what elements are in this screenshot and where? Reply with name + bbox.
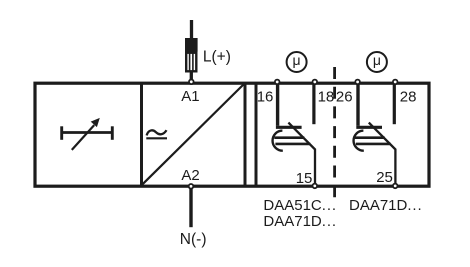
svg-text:26: 26 — [336, 89, 353, 106]
divider supply cell right edge — [244, 83, 247, 187]
svg-text:A1: A1 — [181, 88, 199, 105]
svg-text:18: 18 — [318, 89, 335, 106]
terminal 28 — [393, 80, 398, 85]
main device box — [35, 83, 429, 186]
svg-text:L(+): L(+) — [203, 48, 231, 65]
contact K2 moving arm — [369, 123, 396, 184]
svg-text:N(-): N(-) — [180, 231, 207, 248]
terminal A1 — [189, 80, 194, 85]
wire A2 to N — [189, 189, 192, 227]
contact K1 delay device lines — [274, 136, 304, 139]
contact K2 fixed NC bar — [356, 126, 382, 129]
contact K2 delay device lines — [355, 136, 385, 139]
contact K2 fixed NC lead from 26 — [356, 85, 359, 126]
terminal 16 — [275, 80, 280, 85]
terminal 25 — [393, 184, 398, 189]
terminal 15 — [313, 184, 318, 189]
divider timing cell / supply cell — [140, 83, 143, 187]
svg-text:μ: μ — [293, 52, 301, 68]
potentiometer timing-adjust symbol — [62, 118, 113, 150]
svg-text:16: 16 — [257, 89, 274, 106]
contact K2 delay device arc — [354, 131, 364, 151]
terminal A2 — [189, 184, 194, 189]
svg-text:μ: μ — [373, 52, 381, 68]
svg-text:DAA71D...: DAA71D... — [349, 197, 423, 214]
wire fuse to terminal A1 — [190, 71, 193, 81]
contacts box left edge — [255, 83, 258, 187]
terminal 18 — [313, 80, 318, 85]
svg-text:A2: A2 — [181, 167, 199, 184]
svg-text:25: 25 — [376, 169, 393, 186]
contact K2 fixed NO lead from 28 — [393, 85, 396, 125]
svg-text:28: 28 — [400, 89, 417, 106]
svg-text:DAA51C...: DAA51C... — [263, 197, 337, 214]
AC/DC symbol — [146, 130, 167, 138]
contact K1 fixed NO lead from 18 — [312, 85, 315, 125]
contact K1 fixed NC bar — [276, 126, 302, 129]
svg-text:15: 15 — [296, 170, 313, 187]
contact K1 delay device arc — [273, 131, 283, 151]
dashed separation line — [333, 67, 336, 203]
terminal 26 — [355, 80, 360, 85]
micro-gap symbol left — [287, 52, 307, 72]
contact K1 fixed NC lead from 16 — [276, 85, 279, 126]
fuse F1 — [185, 38, 198, 71]
contact K1 moving arm — [288, 123, 315, 184]
rectifier diagonal — [143, 83, 245, 184]
svg-text:DAA71D...: DAA71D... — [263, 213, 337, 230]
micro-gap symbol right — [367, 52, 387, 72]
wire supply lead to fuse — [190, 20, 193, 39]
